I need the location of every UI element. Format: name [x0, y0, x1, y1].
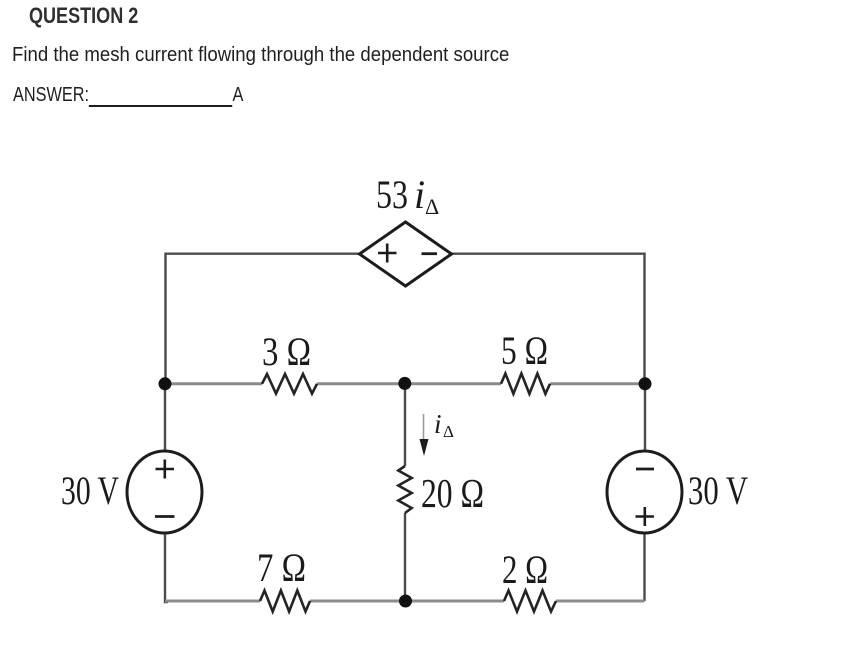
svg-text:Δ: Δ: [443, 422, 454, 441]
V2 minus sign: [636, 468, 654, 471]
wire top-left segment: [166, 252, 360, 254]
svg-text:30 V: 30 V: [688, 468, 748, 513]
question text: [12, 44, 509, 67]
wire middle row right: [550, 382, 645, 385]
node A left junction dot: [159, 377, 172, 390]
svg-text:53: 53: [376, 172, 408, 217]
node C right junction dot: [639, 377, 652, 390]
dependent source plus sign: [378, 244, 397, 263]
resistor R5 2ohm zigzag: [504, 591, 556, 612]
wire middle branch lower: [404, 513, 406, 601]
wire left rail lower: [165, 532, 168, 602]
current arrow i-delta shaft: [423, 414, 425, 440]
wire left rail upper: [164, 253, 166, 384]
V1 plus sign: [156, 460, 175, 479]
wire middle row left: [165, 382, 262, 385]
svg-text:3 Ω: 3 Ω: [262, 329, 311, 374]
heading QUESTION 2: [29, 3, 138, 29]
resistor R2 5ohm zigzag: [501, 374, 550, 394]
resistor R1 3ohm zigzag: [262, 374, 317, 394]
V1 minus sign: [155, 515, 175, 518]
resistor R3 20ohm vertical zigzag: [398, 466, 411, 513]
wire left rail to source: [164, 384, 166, 452]
wire bottom left: [165, 600, 260, 603]
svg-text:5 Ω: 5 Ω: [501, 328, 548, 373]
svg-text:30 V: 30 V: [61, 468, 119, 513]
wire bottom right: [556, 600, 645, 603]
dependent source U1 diamond: [360, 222, 452, 286]
svg-text:7 Ω: 7 Ω: [257, 545, 306, 590]
svg-text:Δ: Δ: [425, 194, 439, 219]
node D bottom junction dot: [399, 595, 412, 608]
svg-text:i: i: [434, 409, 442, 439]
voltage source V1 circle: [127, 451, 202, 533]
wire bottom center: [310, 600, 504, 603]
current arrow i-delta head: [420, 439, 429, 456]
wire middle row center: [317, 382, 501, 385]
svg-text:20 Ω: 20 Ω: [421, 470, 484, 516]
node B middle junction dot: [398, 377, 411, 390]
svg-text:2 Ω: 2 Ω: [502, 547, 548, 592]
voltage source V2 circle: [607, 451, 682, 533]
wire right rail to source: [644, 384, 646, 452]
resistor R4 7ohm zigzag: [260, 591, 310, 612]
svg-text:i: i: [414, 172, 425, 217]
answer line: [13, 84, 243, 107]
wire top-right segment: [452, 252, 645, 254]
wire middle branch upper: [404, 383, 406, 466]
dependent source minus sign: [422, 252, 438, 255]
wire right rail upper: [643, 253, 645, 384]
V2 plus sign: [636, 507, 655, 526]
wire right rail lower: [643, 532, 645, 601]
